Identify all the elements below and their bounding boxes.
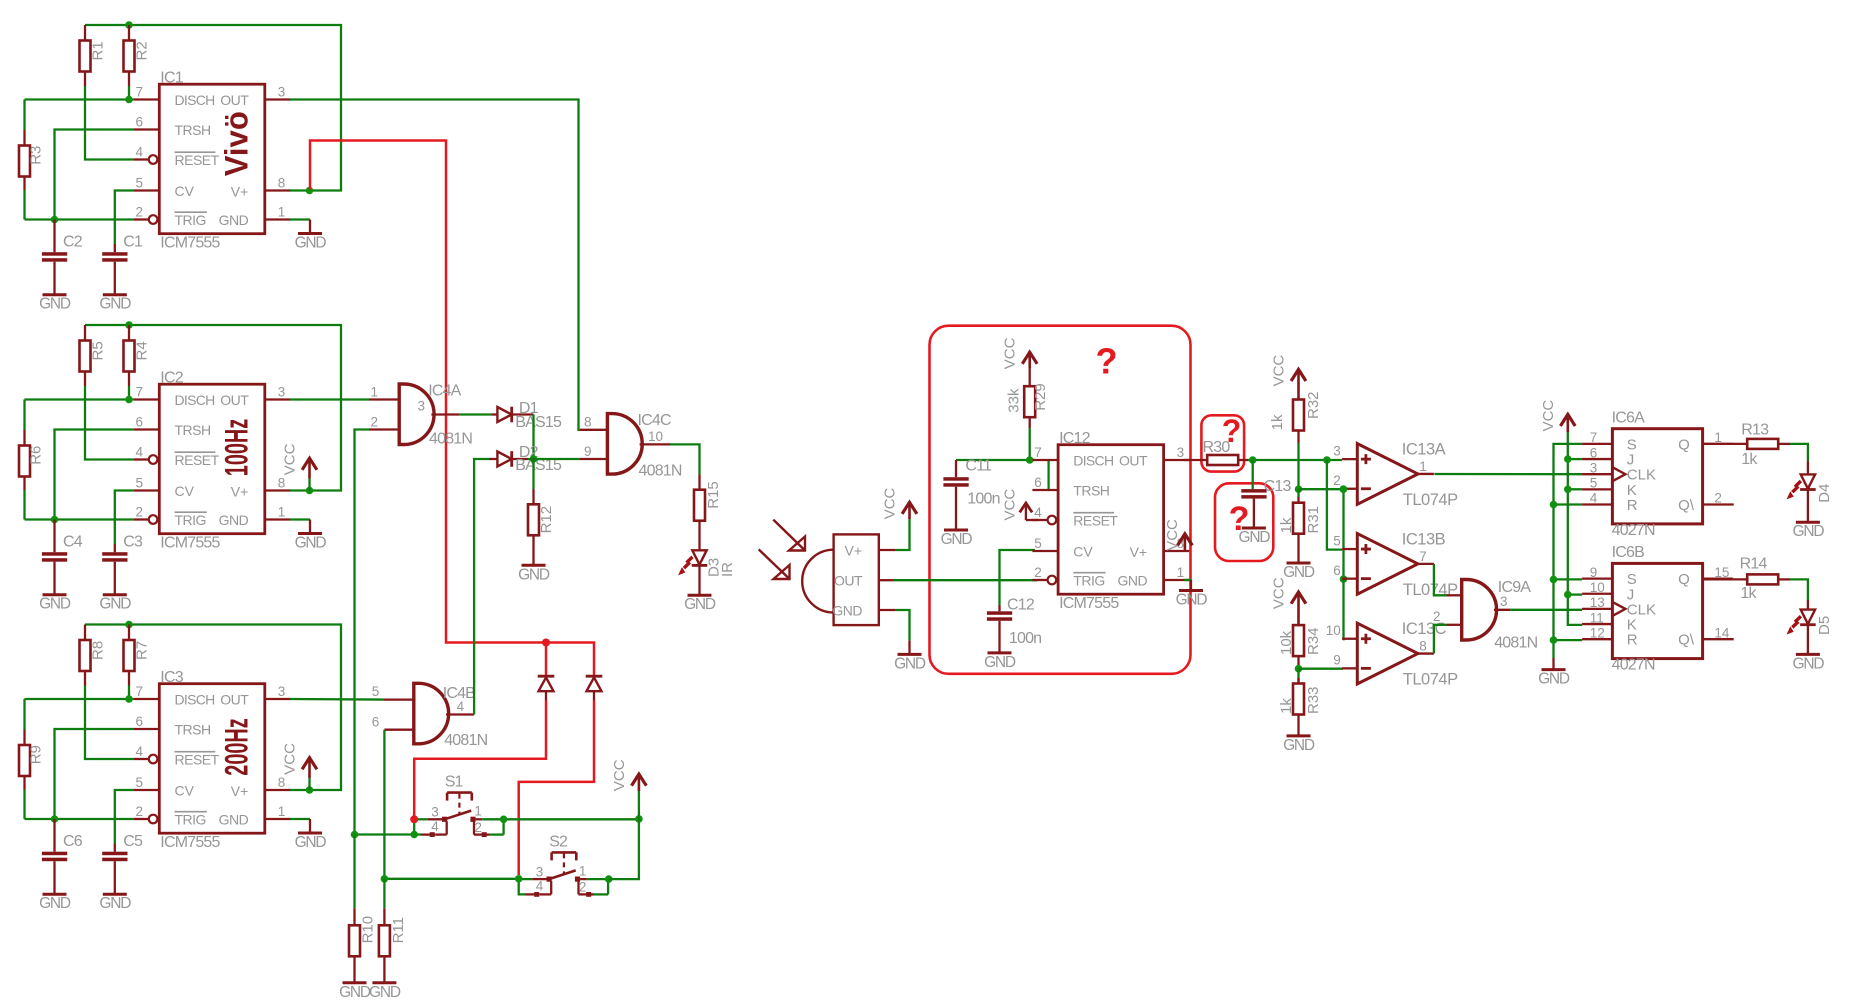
- svg-text:9: 9: [1590, 565, 1598, 580]
- junction: [515, 875, 523, 883]
- junction: [51, 216, 59, 224]
- resistor R33: [1278, 669, 1322, 736]
- svg-text:4081N: 4081N: [444, 732, 487, 749]
- svg-text:R32: R32: [1305, 391, 1322, 419]
- svg-text:1: 1: [278, 505, 286, 520]
- resistor R11: [379, 879, 407, 983]
- svg-text:R30: R30: [1203, 439, 1231, 456]
- svg-text:GND: GND: [295, 235, 327, 252]
- junction: [1026, 456, 1034, 464]
- svg-text:GND: GND: [941, 531, 973, 548]
- svg-text:C13: C13: [1264, 478, 1292, 495]
- svg-text:IC13A: IC13A: [1402, 441, 1446, 459]
- svg-text:VCC: VCC: [1164, 519, 1181, 551]
- svg-text:GND: GND: [99, 596, 131, 613]
- wire IC1 OUT net: [290, 100, 580, 430]
- ground: [372, 981, 396, 984]
- wire DISCH net: [25, 98, 134, 100]
- svg-text:4027N: 4027N: [1612, 657, 1655, 674]
- svg-text:VCC: VCC: [282, 743, 299, 775]
- svg-text:4: 4: [136, 445, 144, 460]
- junction: [306, 187, 314, 195]
- svg-text:5: 5: [136, 176, 144, 191]
- svg-text:RESET: RESET: [175, 152, 220, 168]
- svg-text:GND: GND: [295, 535, 327, 552]
- wire V+ stub: [290, 789, 310, 791]
- wire IC9A out to IC6B CLK: [1510, 609, 1582, 611]
- wire IR OUT to IC12 TRIG: [894, 579, 1038, 581]
- svg-text:3: 3: [278, 684, 286, 699]
- switch S1: [414, 774, 503, 838]
- svg-text:C11: C11: [965, 457, 992, 474]
- junction: [306, 786, 314, 794]
- svg-text:10: 10: [1326, 623, 1341, 638]
- wire IC3 OUT to IC4B pin5: [290, 698, 384, 701]
- wire CV net: [115, 491, 134, 545]
- svg-text:5: 5: [1333, 533, 1341, 548]
- svg-text:13: 13: [1590, 595, 1605, 610]
- wire GND stub: [290, 518, 310, 520]
- svg-text:7: 7: [1419, 549, 1427, 564]
- svg-text:1k: 1k: [1740, 585, 1757, 602]
- resistor R15: [694, 475, 722, 551]
- svg-text:8: 8: [278, 775, 286, 790]
- svg-text:5: 5: [136, 775, 144, 790]
- wire V+ stub: [290, 489, 310, 491]
- svg-text:6: 6: [1034, 475, 1042, 490]
- op-amp IC13A: [1333, 441, 1458, 510]
- wire IC4B out to D2: [474, 459, 489, 715]
- wire chain to pin10: [1342, 579, 1345, 639]
- svg-text:R6: R6: [28, 446, 45, 465]
- ground: [43, 893, 67, 896]
- junction: [605, 875, 613, 883]
- svg-text:Q\: Q\: [1678, 632, 1695, 649]
- svg-text:R15: R15: [705, 481, 722, 509]
- svg-text:V+: V+: [844, 543, 862, 559]
- ground: [298, 232, 322, 235]
- junction: [1340, 575, 1348, 583]
- junction: [1564, 455, 1572, 463]
- wire VCC net vertical: [1568, 432, 1582, 625]
- svg-text:6: 6: [136, 415, 144, 430]
- IR receiver module U1: [802, 534, 895, 625]
- svg-text:7: 7: [1590, 430, 1598, 445]
- svg-text:TRSH: TRSH: [175, 122, 211, 138]
- svg-text:VCC: VCC: [282, 443, 299, 475]
- svg-text:5: 5: [1034, 536, 1042, 551]
- svg-text:OUT: OUT: [220, 92, 249, 108]
- svg-text:3: 3: [418, 399, 426, 414]
- wire TRSH net: [55, 430, 134, 520]
- svg-text:4081N: 4081N: [639, 462, 682, 479]
- resistor R31: [1278, 489, 1322, 563]
- svg-text:GND: GND: [894, 655, 926, 672]
- svg-text:VCC: VCC: [1271, 577, 1288, 609]
- wire R14 to D5: [1790, 579, 1808, 600]
- wire lower rail: [384, 878, 518, 880]
- svg-text:1: 1: [579, 863, 587, 878]
- wire VCC branch J IC6A: [1568, 458, 1582, 460]
- svg-text:RESET: RESET: [175, 752, 220, 768]
- svg-text:GND: GND: [39, 296, 71, 313]
- svg-text:IR: IR: [719, 562, 736, 577]
- svg-text:2: 2: [1333, 473, 1341, 488]
- svg-text:8: 8: [584, 414, 592, 429]
- junction (red): [542, 639, 550, 647]
- svg-text:R13: R13: [1741, 422, 1769, 439]
- ground: [988, 651, 1012, 654]
- wire IC2 OUT to IC4A pin1: [290, 398, 369, 400]
- ground: [1796, 521, 1820, 524]
- wire DISCH net IC12: [956, 459, 1035, 461]
- svg-text:Q: Q: [1678, 571, 1690, 588]
- junction: [51, 516, 59, 524]
- svg-text:3: 3: [1590, 460, 1598, 475]
- junction: [125, 96, 133, 104]
- svg-text:C4: C4: [63, 534, 83, 551]
- svg-text:IC1: IC1: [160, 70, 183, 87]
- svg-text:6: 6: [372, 714, 380, 729]
- svg-text:3: 3: [1177, 445, 1185, 460]
- svg-text:V+: V+: [231, 783, 249, 799]
- wire GND stub: [290, 818, 310, 820]
- svg-text:OUT: OUT: [220, 692, 249, 708]
- wire TRIG net: [25, 818, 134, 820]
- wire DISCH net: [25, 398, 134, 400]
- junction: [410, 831, 418, 839]
- junction: [1550, 501, 1558, 509]
- capacitor C12: [987, 596, 1041, 653]
- svg-text:GND: GND: [1283, 564, 1315, 581]
- wire highlighted VCC net (red): [310, 141, 594, 676]
- ground: [522, 564, 546, 567]
- svg-text:VCC: VCC: [611, 759, 628, 791]
- resistor R29: [1002, 337, 1049, 460]
- junction: [1550, 576, 1558, 584]
- op-amp gate IC4C: [580, 412, 682, 479]
- svg-text:8: 8: [278, 176, 286, 191]
- junction: [1550, 636, 1558, 644]
- wire half-VCC net: [1299, 488, 1344, 490]
- svg-text:R14: R14: [1740, 556, 1768, 573]
- svg-text:BAS15: BAS15: [515, 414, 562, 431]
- power VCC: [1540, 400, 1575, 432]
- svg-text:10: 10: [1590, 580, 1605, 595]
- resistor R34: [1271, 577, 1322, 668]
- svg-text:GND: GND: [369, 984, 401, 1001]
- svg-text:DISCH: DISCH: [1073, 453, 1113, 469]
- junction: [1323, 456, 1331, 464]
- svg-text:GND: GND: [684, 596, 716, 613]
- svg-text:3: 3: [278, 385, 286, 400]
- op IC timer IC3: [134, 669, 291, 851]
- op-amp gate IC9A: [1433, 579, 1538, 652]
- svg-text:TRSH: TRSH: [1073, 483, 1109, 499]
- junction: [125, 695, 133, 703]
- svg-text:2: 2: [371, 415, 379, 430]
- ground: [103, 893, 127, 896]
- svg-text:V+: V+: [1130, 544, 1148, 560]
- svg-text:11: 11: [1590, 610, 1604, 625]
- flip-flop IC6B: [1582, 544, 1734, 674]
- svg-text:2: 2: [136, 505, 144, 520]
- svg-text:R5: R5: [90, 341, 107, 360]
- svg-text:DISCH: DISCH: [175, 392, 215, 408]
- svg-text:2: 2: [136, 804, 144, 819]
- svg-text:IC13B: IC13B: [1402, 531, 1446, 549]
- wire IR GND down: [895, 610, 910, 640]
- svg-text:R9: R9: [28, 745, 45, 764]
- svg-text:12: 12: [1590, 625, 1605, 640]
- svg-text:R10: R10: [360, 916, 377, 944]
- op IC timer IC1: [134, 70, 291, 252]
- wire IC4A out to D1: [459, 413, 492, 415]
- wire IC13C out to IC9A: [1434, 625, 1447, 654]
- resistor R3: [19, 100, 45, 220]
- svg-text:TL074P: TL074P: [1403, 671, 1458, 689]
- svg-text:1: 1: [1177, 565, 1185, 580]
- wire D1 cathode down: [532, 415, 534, 460]
- wire IC13A out to IC6A CLK: [1434, 473, 1582, 476]
- svg-text:GND: GND: [39, 596, 71, 613]
- svg-text:ICM7555: ICM7555: [160, 235, 220, 252]
- resistor R12: [528, 459, 555, 565]
- junction: [351, 831, 359, 839]
- svg-text:?: ?: [1096, 341, 1118, 382]
- svg-text:VCC: VCC: [1002, 489, 1019, 521]
- svg-text:VCC: VCC: [1271, 355, 1288, 387]
- wire IC13B out to IC9A: [1434, 564, 1447, 595]
- svg-text:IC2: IC2: [160, 370, 183, 387]
- wire TRSH jog: [1047, 460, 1049, 490]
- svg-text:4: 4: [431, 819, 439, 834]
- ground: [688, 594, 712, 597]
- svg-text:GND: GND: [295, 834, 327, 851]
- svg-text:R1: R1: [90, 41, 107, 60]
- wire GND branch S IC6B: [1554, 578, 1583, 580]
- svg-text:GND: GND: [984, 654, 1016, 671]
- svg-text:GND: GND: [99, 895, 131, 912]
- svg-text:TRIG: TRIG: [175, 812, 206, 828]
- capacitor C3: [102, 534, 143, 595]
- junction: [125, 621, 133, 629]
- svg-text:VCC: VCC: [1002, 337, 1019, 369]
- junction: [635, 815, 643, 823]
- ground: [1542, 668, 1566, 671]
- wire net top IC3: [85, 625, 341, 791]
- wire S2 pin1 up to VCC rail: [609, 819, 639, 879]
- diode (left vertical): [538, 676, 555, 700]
- svg-text:IC9A: IC9A: [1498, 579, 1531, 596]
- svg-text:Q\: Q\: [1678, 497, 1695, 514]
- wire IC4B pin6 net: [383, 730, 385, 879]
- resistor R30: [1184, 439, 1248, 465]
- svg-text:2: 2: [1034, 565, 1042, 580]
- svg-text:TRSH: TRSH: [175, 722, 211, 738]
- svg-text:GND: GND: [39, 895, 71, 912]
- junction: [1564, 591, 1572, 599]
- junction: [1340, 485, 1348, 493]
- svg-text:1k: 1k: [1278, 517, 1295, 533]
- ground: [898, 653, 922, 656]
- junction (red): [410, 815, 418, 823]
- wire TRIG net: [25, 218, 134, 220]
- svg-text:TRIG: TRIG: [175, 512, 206, 528]
- svg-text:IC4A: IC4A: [428, 382, 461, 399]
- junction: [381, 875, 389, 883]
- svg-text:GND: GND: [339, 984, 371, 1001]
- svg-text:C12: C12: [1007, 596, 1035, 613]
- junction: [1295, 485, 1303, 493]
- svg-text:R: R: [1627, 497, 1638, 514]
- wire red branch to left diode: [545, 643, 548, 676]
- wire DISCH net: [25, 698, 134, 700]
- op-amp IC13C: [1326, 620, 1458, 689]
- resistor R6: [19, 400, 45, 520]
- svg-text:3: 3: [278, 85, 286, 100]
- svg-text:ICM7555: ICM7555: [160, 535, 220, 552]
- svg-text:1: 1: [371, 385, 379, 400]
- op IC timer IC12: [1032, 430, 1189, 612]
- svg-text:V+: V+: [231, 484, 249, 500]
- power VCC: [882, 487, 917, 519]
- wire stub: [1552, 658, 1554, 670]
- svg-text:1: 1: [474, 804, 482, 819]
- svg-text:DISCH: DISCH: [175, 92, 215, 108]
- ground: [1242, 527, 1266, 530]
- svg-text:2: 2: [579, 880, 587, 895]
- svg-text:OUT: OUT: [220, 392, 249, 408]
- svg-text:C5: C5: [123, 833, 143, 850]
- wire GND branch R IC6A: [1554, 503, 1583, 505]
- resistor R9: [19, 699, 45, 819]
- wire net top IC1: [85, 25, 341, 191]
- resistor R8: [80, 625, 107, 686]
- wire red to S1 pin3: [414, 701, 546, 816]
- wire RESET net: [85, 686, 134, 760]
- wire GND stub: [290, 218, 310, 220]
- svg-text:IC3: IC3: [160, 669, 183, 686]
- svg-text:6: 6: [1333, 563, 1341, 578]
- junction: [125, 396, 133, 404]
- junction: [1340, 485, 1348, 493]
- svg-text:1k: 1k: [1269, 414, 1286, 430]
- junction: [500, 816, 508, 824]
- svg-text:GND: GND: [1176, 592, 1208, 609]
- wire net top IC2: [85, 325, 341, 491]
- svg-text:R2: R2: [134, 41, 151, 60]
- resistor R2: [124, 25, 151, 100]
- svg-text:C1: C1: [123, 234, 143, 251]
- svg-text:1: 1: [278, 205, 286, 220]
- svg-text:6: 6: [1590, 445, 1598, 460]
- resistor R32: [1269, 355, 1322, 490]
- svg-text:7: 7: [136, 684, 144, 699]
- svg-text:D5: D5: [1816, 616, 1833, 635]
- svg-text:RESET: RESET: [175, 452, 220, 468]
- svg-text:IC6A: IC6A: [1612, 410, 1645, 427]
- ground: [298, 832, 322, 835]
- svg-text:8: 8: [1419, 639, 1427, 654]
- svg-text:ICM7555: ICM7555: [160, 834, 220, 851]
- svg-text:4: 4: [536, 879, 544, 894]
- annotation red box around C13: [1215, 483, 1273, 561]
- svg-text:5: 5: [1590, 476, 1598, 491]
- svg-text:100Hz: 100Hz: [218, 419, 254, 476]
- svg-text:GND: GND: [518, 566, 550, 583]
- capacitor C13: [1241, 460, 1291, 528]
- resistor R13: [1703, 422, 1790, 469]
- svg-text:CV: CV: [175, 783, 195, 799]
- svg-text:RESET: RESET: [1073, 513, 1118, 529]
- LED D3: [678, 550, 736, 595]
- IR ray arrow: [773, 520, 804, 550]
- svg-text:14: 14: [1714, 625, 1730, 640]
- wire VCC branch J IC6B: [1568, 593, 1582, 595]
- wire S1 pin1 rail to VCC: [504, 818, 639, 820]
- junction: [125, 21, 133, 29]
- svg-text:TRIG: TRIG: [175, 212, 206, 228]
- svg-text:GND: GND: [219, 212, 249, 228]
- svg-text:TL074P: TL074P: [1403, 491, 1458, 509]
- junction: [125, 321, 133, 329]
- svg-text:Q: Q: [1678, 436, 1690, 453]
- svg-text:CV: CV: [175, 483, 195, 499]
- svg-text:S1: S1: [445, 774, 464, 791]
- wire IC4A pin2 net: [355, 430, 370, 835]
- resistor R10: [349, 835, 377, 983]
- wire to IC4C pin9: [528, 458, 580, 460]
- power VCC: [611, 759, 646, 819]
- svg-text:GND: GND: [99, 296, 131, 313]
- svg-text:200Hz: 200Hz: [218, 718, 254, 775]
- svg-text:R3: R3: [28, 146, 45, 165]
- wire rail to S1: [355, 833, 422, 835]
- wire RESET net: [85, 386, 134, 460]
- ground: [343, 981, 367, 984]
- wire chain down to pin6 pin10: [1342, 489, 1344, 579]
- op-amp gate IC4B: [372, 683, 488, 749]
- svg-text:4: 4: [1034, 505, 1042, 520]
- svg-text:TRSH: TRSH: [175, 422, 211, 438]
- svg-text:R: R: [1627, 632, 1638, 649]
- ground: [43, 293, 67, 296]
- wire V+ stub: [290, 189, 310, 191]
- svg-text:IC4B: IC4B: [443, 685, 475, 702]
- capacitor C11: [943, 457, 999, 530]
- junction: [530, 455, 538, 463]
- svg-text:7: 7: [136, 385, 144, 400]
- svg-text:6: 6: [136, 115, 144, 130]
- svg-text:4: 4: [136, 744, 144, 759]
- svg-text:GND: GND: [219, 812, 249, 828]
- junction: [1295, 665, 1303, 673]
- svg-text:GND: GND: [1792, 655, 1824, 672]
- svg-text:8: 8: [278, 476, 286, 491]
- wire TRIG net: [25, 518, 134, 520]
- svg-text:D4: D4: [1816, 484, 1833, 503]
- svg-text:4: 4: [136, 145, 144, 160]
- IR ray arrow: [759, 549, 789, 578]
- wire GND pin1 IC12: [1184, 579, 1191, 581]
- wire TRSH net: [55, 130, 134, 220]
- op-amp gate IC4A: [369, 382, 472, 447]
- svg-text:R12: R12: [538, 506, 555, 534]
- wire S2 left bracket drop: [519, 879, 526, 894]
- svg-text:GND: GND: [1117, 573, 1147, 589]
- svg-text:GND: GND: [1538, 671, 1570, 688]
